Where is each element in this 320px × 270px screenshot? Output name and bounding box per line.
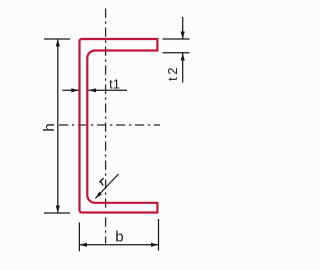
svg-text:t2: t2 xyxy=(165,65,180,81)
svg-text:h: h xyxy=(41,123,58,131)
svg-text:b: b xyxy=(115,229,123,246)
svg-text:t1: t1 xyxy=(109,76,120,91)
